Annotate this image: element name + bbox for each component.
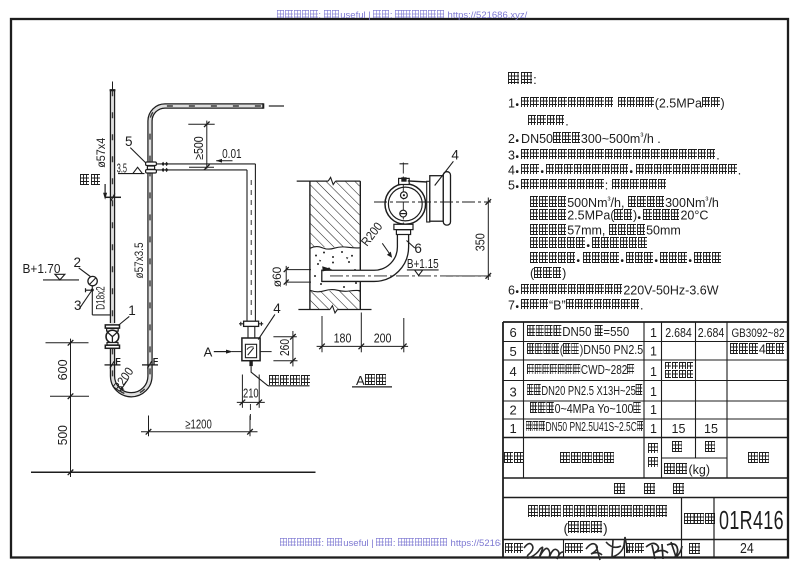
label: mingxibiao (detail table) row [614,483,625,497]
dimension: 260 meter height [273,336,296,338]
label: flow direction (liuxiang) [80,174,102,187]
svg-text:600: 600 [55,359,70,380]
component: plunger valve (item 1) flanges and body [105,325,119,328]
svg-text:1: 1 [650,422,657,436]
svg-text:2.684: 2.684 [698,326,725,340]
svg-text:≥500: ≥500 [192,136,206,160]
label: header beizhu (remarks) [748,452,771,466]
wire: horizontal centerline of inlet pipe (dash-dot) [330,275,491,277]
pipe: right riser above orifice, top bend and horizontal run to workshop [150,106,263,162]
component: ring chamber (item with orifice) [430,176,444,222]
label: header name and spec [560,452,616,466]
svg-text:2.684: 2.684 [665,326,692,340]
component: oxygen pressure gauge (item 2) [88,276,97,285]
component: gauge top cap and vent [399,178,410,184]
node: tap valves (solid diamonds) lower line [161,168,164,172]
wire: bracket from cap to chamber [408,181,428,182]
label: underline of view title A-turn [352,386,392,388]
component: orifice plate flange pair (item 5) on right riser [146,162,157,166]
svg-text:4: 4 [510,364,517,379]
pipe: left riser below valve + U-bend (R200) + right riser (dia57x3.5) [113,173,151,394]
wire: wall right edge [359,181,361,309]
svg-text:ø60: ø60 [272,267,284,288]
wire: neck between flange and meter box [247,326,249,338]
label: notes heading shuoming [508,72,537,86]
dimension: 350 height of gauge center [487,198,489,281]
label: page caption [689,543,700,556]
dimension: >=500 vertical [206,121,208,169]
pipe: inlet pipe through wall, R200 bend up to DP gauge [322,234,403,275]
label: drawing title line 2 (with metering) [564,521,608,536]
dimension: 210 meter box width [241,375,243,408]
svg-text:6: 6 [414,241,422,256]
label: cable entry (dianxian yinru) [269,375,311,387]
wire: horizontal centerline through gauge (dash-dot) [374,201,491,203]
svg-text:180: 180 [334,331,352,346]
node: fixed point mark F on right riser [142,364,158,366]
wire: upper impulse tap line [156,163,255,165]
svg-text:D18x2: D18x2 [94,286,108,310]
wire: wall bottom edge with break [298,309,330,311]
svg-text:1: 1 [650,365,657,379]
svg-text:F: F [115,356,121,366]
svg-text:15: 15 [704,422,718,436]
value: parts table name/spec column [527,325,629,338]
component: DP gauge body circle [385,184,426,225]
svg-text:A: A [204,344,213,359]
dimension: chain 600 and 500 left of U-bend [70,339,72,477]
node: top bolt [401,192,408,199]
label: header weight kg [664,463,688,477]
node: reviewer signature scribble [524,544,564,559]
svg-text:6: 6 [510,325,517,340]
wire: concrete band lower boundary (wavy) [310,290,360,292]
svg-text:0.01: 0.01 [222,146,242,161]
label: signature captions shenhe/jiaodui/sheji [505,543,524,556]
component: flange disc edge-on (capsule) [443,172,450,225]
node: flow direction arrow (liuxiang) [104,184,106,195]
component: manifold flange on impulse tubes [244,321,259,326]
wire: pipe cap top of left riser [110,89,116,91]
svg-text:4: 4 [451,148,459,163]
svg-text:3: 3 [74,298,82,313]
node: flow wedge arrow at pipe inlet [322,266,332,271]
wire: gauge stem impulse tube D18x2 [91,286,93,315]
wire: gauge line elbow into riser [92,314,110,316]
component: plate flange between gauge and chamber [427,181,430,222]
node: designer signature scribble [646,542,682,559]
label: purple watermark top [277,10,527,21]
table: parts list grid [503,321,788,323]
dimension: 180 and 200 wall offsets [321,316,323,352]
wire: centerline between impulse tubes [250,180,252,319]
svg-text:260: 260 [277,339,292,356]
svg-text:1: 1 [650,403,657,417]
node: cable gland below meter [249,361,252,366]
svg-text:1: 1 [650,326,657,340]
dimension: dia60 sleeve at wall face [286,269,311,271]
value: page number 24 [740,542,754,557]
value: remark with-item-4 row5 [730,343,786,356]
wire: wall left edge [309,181,311,309]
component: differential pressure meter box (item 4) [242,338,260,361]
label: header dan (unit) [672,441,683,455]
component: cock valve (item 3) on gauge line [86,289,93,291]
svg-text:GB3092~82: GB3092~82 [732,326,785,340]
label: header jianshu (qty, stacked) [648,443,658,456]
svg-text:2: 2 [510,403,517,418]
svg-text:R200: R200 [358,220,385,249]
svg-text:F: F [153,356,159,366]
node: tap valves (solid diamonds) upper line [161,162,164,166]
label: notes list [508,97,725,110]
label: header jianhao (item no.) [504,452,524,465]
value: row4 indicating-type small text [665,362,695,372]
label: view title A-turn [356,374,387,387]
value: atlas number 01R416 [719,507,784,533]
node: bottom bolt [400,210,407,217]
svg-text:5: 5 [125,134,133,149]
label: purple watermark bottom (clipped by table) [280,538,501,549]
svg-text:1: 1 [650,344,657,358]
svg-text:B+1.15: B+1.15 [407,257,439,271]
dimension: >=1200 between risers [148,416,150,437]
svg-text:15: 15 [672,422,686,436]
wire: continuation axis line after pipe break [269,105,284,107]
label: drawing title line 1 [528,505,668,520]
wire: centerline below meter [249,404,251,420]
component: flange pair under gauge [394,224,413,229]
svg-text:4: 4 [273,301,281,316]
wire: ground line of elevation [31,471,316,473]
label: atlas number caption [684,513,715,526]
wire: rounded cap at right end of horizontal pipe [262,103,264,108]
node: field weld mark on left riser y197 [105,196,121,198]
svg-text:1: 1 [510,421,517,436]
svg-text:200: 200 [374,331,392,346]
wire: impulse tube inner vertical drop [246,170,248,322]
wire: vertical centerline of gauge [402,163,404,224]
svg-text:2: 2 [74,255,82,270]
svg-text:≥1200: ≥1200 [185,417,212,432]
label: header zong (total) [705,441,716,455]
node: fixed point mark F on left riser [105,364,121,366]
svg-text:1: 1 [650,385,657,399]
svg-text:1: 1 [128,303,136,318]
wire: pipe open end inside wall [321,270,323,283]
node: concrete speckles [315,255,317,257]
svg-text:ø57x4: ø57x4 [94,138,108,168]
svg-text:500: 500 [55,425,70,445]
pipe: vertical supply pipe (dia57x4), left riser [112,82,114,90]
svg-text:5: 5 [510,344,517,359]
svg-text:ø57x3.5: ø57x3.5 [132,242,146,278]
wire: concrete band upper boundary (wavy) [310,247,360,250]
wire: impulse tube outer vertical drop [254,164,256,322]
wire: lower impulse tap line [156,169,247,171]
node: checker signature scribble [586,537,628,560]
svg-text:210: 210 [243,386,259,401]
label: cable entry leader (dianxian yinru) [251,372,268,386]
wire: wall top edge with break [297,180,329,182]
svg-text:350: 350 [473,233,488,251]
svg-text:3: 3 [510,385,517,400]
